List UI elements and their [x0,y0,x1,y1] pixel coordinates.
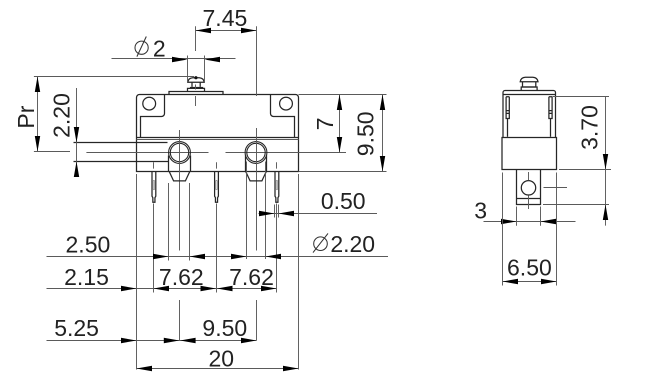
mounting hole top-right [280,97,293,110]
side plunger stem [523,82,536,87]
lever top edge [74,142,168,144]
svg-text:3.70: 3.70 [577,105,603,150]
dim 3.70 arrows [603,154,608,220]
case parting line [137,137,299,139]
terminal stub right [246,172,267,181]
dim dia2.20 symbol [314,237,328,251]
dim 9.50 arrows [380,95,385,172]
dim 6.50 line [503,281,557,283]
svg-text:2.15: 2.15 [64,264,109,290]
dim dia2 arrows [172,57,220,62]
dim dia2 ext [187,56,189,83]
plunger boss platform [169,92,223,95]
dim 9.50 line [382,95,384,172]
side plunger collar [521,87,537,91]
dim 3.70 ext bottom [543,204,609,206]
dim 6.50 ext [502,173,504,286]
svg-text:5.25: 5.25 [54,315,99,341]
dim 7.45 arrows [196,28,257,33]
dim row1 line [47,256,389,258]
side clip right [549,97,552,119]
plunger centerline [195,85,197,90]
dim 7.45 ext left [195,26,197,51]
terminal pin 1 [152,172,156,203]
dim 9.50b arrows [180,338,256,343]
mounting hole top-left [143,97,156,110]
svg-text:6.50: 6.50 [507,254,552,280]
side terminal centerline v [528,172,530,180]
dim 3.70 ext mid [559,169,611,171]
dim 2.50 arrows [153,254,205,259]
dim 3 arrows [501,219,556,224]
dim 0.50 arrows [259,211,294,216]
svg-text:7.62: 7.62 [229,264,274,290]
dim Pr arrows [35,77,40,152]
case parting line lower [137,139,299,141]
side body ledge line [503,94,556,96]
svg-text:7: 7 [312,117,338,130]
dim 3.70 ext top [553,96,610,98]
svg-text:0.50: 0.50 [321,188,366,214]
dim 7.45 ext right [256,26,258,96]
dim row2 line [47,288,277,290]
dim 3 line [484,221,576,223]
dim Pr ext top [34,76,194,78]
terminal pin 2 [215,172,219,203]
svg-text:9.50: 9.50 [353,111,379,156]
boss column left [168,156,170,172]
lever centerline [86,152,208,154]
side terminal crimp line [517,198,541,200]
boss circle right outer [245,142,267,164]
side body lower box [502,138,557,170]
dim dia2.20 arrows [231,254,281,259]
dim 2.15 arrows [121,286,169,291]
side terminal hole [521,181,535,195]
hole centerline vertical left [179,130,181,251]
plunger base block [188,88,205,91]
dim 3 ext [516,207,518,226]
dim 0.50 line [259,213,378,215]
dim 7 line [339,95,341,153]
pin3 edge extension lines [274,205,276,218]
dim 7.45 line [196,30,257,32]
dim dia2 symbol [135,41,148,54]
terminal pin 3 [275,172,279,203]
side terminal [517,170,541,205]
dim Pr ext bottom [34,151,70,153]
svg-text:3: 3 [474,198,487,224]
dim 7.62b arrows [261,286,277,291]
dim row3 line [47,340,257,342]
inner cover line top-right [271,95,295,138]
body right edge extension line [298,174,300,370]
inner cover line top-left [141,95,165,138]
dim dia2 line [112,58,236,60]
hole circle left inner [170,143,188,161]
lever bottom edge [74,161,170,163]
dim 3.70 line [605,97,607,226]
svg-text:2: 2 [153,36,166,62]
svg-text:2.20: 2.20 [330,231,375,257]
plunger dome cap [188,78,205,83]
svg-text:7.45: 7.45 [203,5,248,31]
side clip left [506,97,509,119]
plunger collar [190,87,203,89]
dim 20 arrows [137,366,299,371]
boss circle left outer [169,142,191,164]
svg-text:2.50: 2.50 [66,231,111,257]
svg-text:7.62: 7.62 [159,264,204,290]
dim 2.20 arrows [74,127,79,177]
dim 2.20 line [76,88,78,172]
dim 6.50 arrows [503,279,557,284]
dim 7.62a arrows [201,286,233,291]
side plunger dome [520,77,538,81]
hole centerline vertical right [256,128,258,251]
svg-text:2.20: 2.20 [49,93,75,138]
dim 7 arrows [337,95,342,153]
side body upper box [503,91,556,138]
svg-text:20: 20 [209,345,235,371]
hole circle right inner [247,143,265,161]
hole right edge extension lines [246,162,248,260]
body bottom extension line right [299,171,387,173]
switch body outline (front view) [137,95,299,172]
dim 5.25 arrows [121,338,179,343]
plunger stem [192,82,200,87]
body left edge extension line [136,174,138,370]
terminal stub left [169,172,190,181]
dim Pr line [37,77,39,152]
body top extension line right [299,94,387,96]
svg-text:Pr: Pr [13,105,39,128]
side terminal centerline h [544,187,568,189]
dim row4 line [137,368,299,370]
svg-text:9.50: 9.50 [202,315,247,341]
plunger top nub [194,76,197,79]
stub left edge extension lines [168,183,170,261]
boss column right [245,156,247,172]
